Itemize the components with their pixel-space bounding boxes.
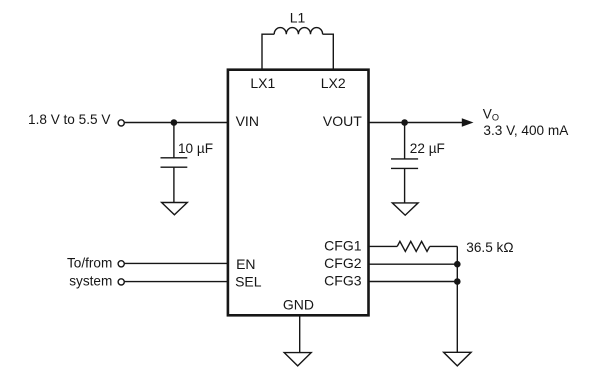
svg-text:GND: GND [283,297,314,313]
svg-text:CFG2: CFG2 [324,255,362,271]
svg-text:CFG3: CFG3 [324,273,362,289]
wire EN [125,262,228,264]
wire CFG3 [369,281,457,283]
wire LX2 stub [323,34,334,69]
wire CFG2 [369,263,457,265]
wire input to VIN [125,122,228,124]
svg-text:LX2: LX2 [321,75,346,91]
wire cap C1 top [173,123,175,158]
svg-text:system: system [69,273,112,288]
ground under C2 [392,203,418,215]
wire SEL [125,281,228,283]
wire resistor to node [430,245,458,247]
wire cap C2 bottom [404,168,406,203]
terminal input [118,120,124,126]
wire LX1 stub [262,34,274,69]
svg-text:EN: EN [236,256,255,272]
wire cap C1 bottom [173,167,175,202]
arrowhead Vo [462,118,474,126]
capacitor C2 22uF [391,159,418,169]
wire VOUT to arrow [369,122,463,124]
svg-text:L1: L1 [290,10,306,26]
wire GND stub [299,316,301,353]
svg-text:10 µF: 10 µF [178,141,213,156]
svg-text:LX1: LX1 [250,75,275,91]
terminal SEL [118,279,124,285]
ground under C1 [162,203,188,215]
resistor R1 36.5k [397,241,430,251]
node junction CFG3 [454,278,461,285]
svg-text:22 µF: 22 µF [410,141,445,156]
svg-text:CFG1: CFG1 [324,237,362,253]
op-amp U1 [228,70,369,316]
node junction VIN [171,119,178,126]
capacitor C1 10uF [161,158,188,167]
inductor L1 [274,28,322,35]
wire node vertical [456,246,458,352]
svg-text:SEL: SEL [235,274,262,290]
terminal EN [118,261,124,267]
svg-text:VOUT: VOUT [323,113,362,129]
node junction VOUT [401,119,408,126]
svg-text:To/from: To/from [67,256,112,271]
svg-text:36.5 kΩ: 36.5 kΩ [466,240,513,255]
ground right [444,352,472,366]
wire cap C2 top [404,123,406,159]
node junction CFG2 [454,261,461,268]
ground center [284,353,311,366]
wire CFG1 to resistor [369,245,397,247]
svg-text:3.3 V, 400 mA: 3.3 V, 400 mA [483,123,569,138]
svg-text:1.8 V to 5.5 V: 1.8 V to 5.5 V [28,112,110,127]
svg-text:VIN: VIN [236,113,259,129]
